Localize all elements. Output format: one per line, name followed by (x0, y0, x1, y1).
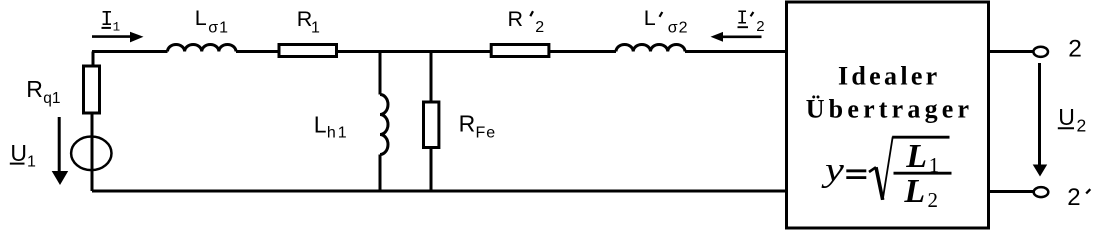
wire box to terminal 2 (990, 50, 1033, 53)
svg-text:1: 1 (113, 21, 121, 35)
wire corner into Rq1 branch (92, 52, 95, 67)
label L_sigma1 (195, 6, 229, 37)
arrow I1 (92, 35, 131, 38)
svg-text:2: 2 (756, 18, 764, 35)
svg-text:2: 2 (535, 19, 544, 36)
svg-text:R: R (26, 76, 43, 102)
arrow U1 (58, 117, 61, 172)
svg-text:Übertrager: Übertrager (806, 95, 974, 124)
underline of I'2 (738, 26, 749, 28)
resistor RFe (424, 102, 439, 148)
formula L2 denominator (903, 173, 938, 212)
svg-text:L: L (195, 6, 207, 30)
label R1 (297, 7, 320, 37)
svg-text:q1: q1 (43, 90, 60, 107)
svg-text:2: 2 (1068, 36, 1082, 63)
svg-text:y: y (821, 152, 845, 189)
wire between R1 and R'2 (338, 50, 491, 53)
terminal 2 circle (1033, 47, 1048, 57)
svg-text:1: 1 (311, 20, 320, 37)
inductor L'sigma2 (616, 44, 685, 51)
svg-text:L: L (905, 138, 927, 175)
svg-text:L: L (314, 111, 327, 137)
resistor Rq1 (84, 66, 100, 113)
svg-text:σ1: σ1 (208, 20, 229, 37)
inductor Lh1 (380, 95, 388, 155)
label Lh1 (314, 111, 349, 141)
label L'sigma2 (644, 6, 689, 36)
formula equals sign (846, 169, 866, 172)
svg-text:h1: h1 (327, 125, 349, 142)
underline of U1 (10, 163, 25, 165)
wire box to terminal 2' (990, 190, 1033, 193)
svg-text:σ2: σ2 (668, 20, 689, 37)
svg-text:2: 2 (928, 188, 939, 212)
underline of U2 (1058, 127, 1074, 129)
underline of I1 (102, 27, 111, 29)
resistor R'2 (491, 45, 549, 57)
label U2 (1058, 104, 1086, 136)
wire through source to bottom (91, 137, 94, 191)
arrow I'2 (723, 35, 762, 38)
wire between L_sigma1 and R1 (236, 50, 279, 53)
formula script y (821, 152, 845, 189)
resistor R1 (279, 45, 337, 57)
svg-text:R: R (297, 7, 313, 31)
node junction Lh1 top (379, 52, 382, 95)
prime of R'2 (530, 11, 533, 16)
label I1 (101, 9, 121, 35)
node junction RFe top (430, 52, 433, 103)
svg-text:U: U (1058, 104, 1075, 130)
wire top-left horizontal segment (92, 50, 168, 53)
formula radical sign (869, 167, 876, 172)
wire bottom horizontal (92, 190, 787, 193)
svg-text:Idealer: Idealer (838, 62, 941, 91)
svg-text:R: R (508, 7, 524, 31)
prime of 2' (1086, 189, 1090, 193)
transformer box Idealer Uebertrager (787, 2, 989, 228)
wire RFe bottom (430, 148, 433, 192)
wire between R'2 and L'sigma2 (549, 50, 616, 53)
formula fraction bar (894, 172, 952, 175)
label RFe (459, 111, 497, 142)
label R'2 (508, 7, 545, 36)
svg-text:L: L (903, 173, 925, 210)
svg-text:R: R (459, 111, 476, 137)
terminal 2' circle (1034, 187, 1049, 197)
label Rq1 (26, 76, 60, 107)
label U1 (10, 140, 36, 171)
label I'2 (737, 8, 765, 36)
svg-text:U: U (10, 140, 27, 166)
wire Rq1 to source (91, 113, 94, 137)
svg-text:1: 1 (929, 153, 940, 177)
svg-text:2: 2 (1067, 184, 1080, 211)
inductor L_sigma1 (168, 45, 236, 52)
prime of L'sigma2 (660, 12, 663, 17)
svg-text:L: L (644, 6, 656, 30)
wire between L'sigma2 and transformer box (685, 50, 786, 53)
formula L1 numerator (905, 138, 939, 177)
svg-text:2: 2 (1077, 116, 1087, 136)
svg-text:1: 1 (27, 154, 36, 171)
source U1 circle (71, 137, 111, 171)
svg-text:I: I (737, 8, 748, 30)
arrow U2 (1038, 63, 1041, 165)
svg-text:Fe: Fe (476, 125, 497, 142)
prime of I'2 (751, 12, 754, 16)
wire Lh1 bottom (379, 155, 382, 192)
